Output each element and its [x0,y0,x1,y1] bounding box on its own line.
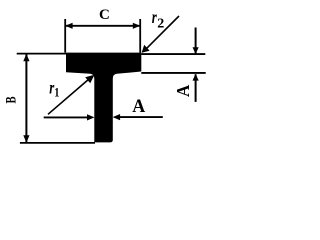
arrowhead C left [65,23,72,29]
leader line r1 [48,79,89,114]
arrowhead web A right-pointing [87,114,95,120]
svg-text:1: 1 [54,86,59,100]
svg-text:B: B [1,96,18,103]
dimension line right A upper tail [195,28,197,54]
dimension line web A left [44,116,88,118]
svg-text:C: C [99,7,110,23]
arrowhead r1 [85,75,94,84]
extension line top of B dimension [17,53,66,55]
arrowhead right A down [193,47,199,54]
arrowhead r2 [142,45,150,53]
dimension line C [66,25,140,27]
arrowhead C right [133,23,140,29]
arrowhead web A left-pointing [113,114,121,120]
extension line left of C dimension [64,19,66,53]
dimension line right A lower tail [195,74,197,102]
leader line r2 [145,16,179,50]
arrowhead right A up [193,74,199,81]
arrowhead B bottom [23,135,29,142]
extension line right of C dimension [139,19,141,53]
extension line bottom of B dimension [20,142,95,144]
svg-text:A: A [173,84,193,97]
extension line bottom of right A dimension [141,72,205,74]
svg-text:A: A [132,95,145,117]
dimension line web A right [119,116,163,118]
extension line top of right A dimension [141,53,205,55]
svg-text:2: 2 [157,17,164,32]
arrowhead B top [23,54,29,61]
T-profile cross-section (flange + web with fillets) [66,53,141,143]
dimension line B [25,55,27,143]
